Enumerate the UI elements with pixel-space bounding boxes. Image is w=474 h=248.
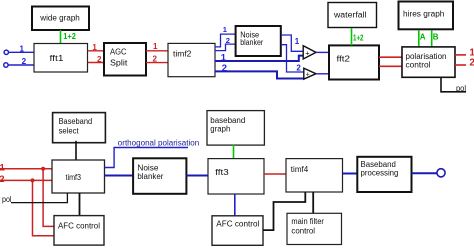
svg-text:A: A [420, 32, 426, 41]
svg-text:timf2: timf2 [173, 50, 192, 59]
svg-text:timf3: timf3 [66, 173, 82, 182]
wire red fft3 to timf4 [264, 173, 286, 175]
wire black timf4 to AFC control [263, 192, 305, 230]
node junction dot 2 [31, 178, 35, 182]
svg-text:AFC control: AFC control [216, 220, 259, 229]
svg-text:main filter: main filter [291, 217, 324, 226]
svg-text:1: 1 [0, 162, 6, 173]
wire green B polarisation to hires [432, 30, 439, 47]
svg-text:pol: pol [2, 195, 12, 204]
box wide graph [32, 7, 89, 31]
box fft3 [208, 159, 264, 194]
box main filter control [287, 213, 342, 244]
box baseband graph [207, 111, 264, 146]
wire input 1 to fft1 [9, 44, 34, 53]
wire black baseband select to timf3 [75, 141, 77, 160]
svg-text:select: select [59, 126, 80, 135]
box hires graph [399, 2, 454, 30]
svg-text:fft3: fft3 [215, 168, 229, 177]
wire red input 2 to timf3 [0, 174, 52, 185]
box noise blanker (top) [236, 26, 281, 56]
wire red input 1 to timf3 [0, 162, 52, 173]
wire green fft3 to baseband graph [233, 145, 235, 159]
wire black pol output right [441, 77, 466, 93]
svg-text:Baseband: Baseband [361, 160, 396, 169]
wire red polarisation out 1 [455, 48, 474, 59]
svg-text:orthogonal polarisation: orthogonal polarisation [118, 138, 199, 147]
svg-text:Baseband: Baseband [59, 117, 93, 126]
svg-text:1: 1 [153, 42, 158, 51]
wire red fft2 out 2 [379, 65, 402, 67]
svg-text:B: B [433, 32, 439, 41]
wire red fft1 out 2 [88, 55, 104, 64]
svg-text:Split: Split [110, 59, 128, 68]
svg-text:blanker: blanker [240, 38, 263, 47]
wire black timf4 to main filter control [312, 192, 314, 213]
wire timf2 ch2 to noise blanker [215, 36, 236, 51]
wire blue timf4 to baseband processing [343, 173, 358, 175]
svg-text:control: control [291, 227, 315, 236]
box AGC Split [104, 43, 146, 76]
svg-text:hires graph: hires graph [403, 9, 444, 18]
wire blue baseband processing output [412, 172, 437, 174]
wire blue noise blanker to fft3 [186, 175, 208, 177]
svg-text:2: 2 [469, 58, 474, 69]
svg-text:2: 2 [153, 54, 158, 63]
box timf2 [168, 43, 215, 76]
svg-text:AGC: AGC [110, 48, 127, 57]
svg-text:AFC control: AFC control [58, 222, 100, 231]
svg-text:2: 2 [226, 36, 230, 45]
wire adder 1 to fft2 [316, 51, 329, 53]
box fft2 [329, 45, 379, 79]
svg-text:+: + [305, 48, 310, 57]
svg-text:processing: processing [361, 169, 399, 178]
box polarisation control [402, 47, 455, 77]
box Baseband processing [357, 157, 411, 192]
node junction dot 1 [41, 167, 45, 171]
svg-text:wide graph: wide graph [39, 14, 80, 23]
wire black timf3 to AFC control [79, 193, 81, 216]
box timf4 [286, 159, 343, 192]
wire green A polarisation to hires [419, 30, 426, 47]
wire green fft2 to waterfall [352, 28, 364, 45]
svg-text:pol: pol [456, 84, 466, 93]
wire red branch 2 to AFC control [33, 180, 55, 235]
adder 2 [304, 68, 316, 79]
node input 1 [4, 50, 8, 54]
wire red polarisation out 2 [455, 58, 474, 69]
svg-text:1: 1 [295, 37, 300, 46]
svg-text:timf4: timf4 [291, 165, 309, 174]
svg-text:fft2: fft2 [337, 55, 351, 64]
wire blue timf3 to noise blanker [105, 175, 134, 177]
svg-text:+: + [306, 71, 310, 78]
node input 2 [4, 63, 8, 67]
node output terminal [437, 169, 445, 177]
svg-text:2: 2 [222, 63, 227, 74]
svg-text:1+2: 1+2 [63, 32, 76, 41]
wire red AGC out 2 [146, 54, 168, 63]
wire black pol input left [2, 193, 67, 204]
adder 1 [303, 46, 316, 59]
svg-text:1: 1 [92, 43, 97, 52]
wire timf2 ch1 to noise blanker [215, 25, 236, 47]
box timf3 [52, 160, 105, 193]
svg-text:2: 2 [97, 55, 102, 64]
wire green fft1 to wide graph [61, 30, 77, 44]
wire timf2 bypass 2 to adder 2 [215, 63, 306, 79]
wire red branch 1 to AFC control [43, 169, 54, 227]
wire blue orthogonal polarisation [105, 138, 200, 167]
svg-text:blanker: blanker [137, 172, 163, 181]
svg-text:polarisation: polarisation [406, 52, 447, 61]
wire red AGC out 1 [146, 42, 168, 51]
svg-text:1: 1 [221, 53, 227, 64]
box Baseband select [53, 113, 106, 143]
wire red fft2 out 1 [379, 56, 402, 58]
svg-text:2: 2 [22, 57, 27, 66]
wire noise blanker out 1 to adder 1 [281, 35, 303, 51]
box waterfall [328, 3, 377, 28]
box AFC control (left) [54, 216, 104, 246]
wire red fft1 out 1 [88, 43, 104, 52]
wire adder 2 to fft2 [316, 73, 329, 75]
wire blue fft3 to AFC control [234, 194, 236, 216]
wire noise blanker out 2 to adder 2 [281, 45, 305, 73]
svg-text:1: 1 [223, 25, 227, 34]
svg-text:2: 2 [296, 64, 301, 73]
svg-text:2: 2 [0, 174, 4, 185]
svg-text:control: control [406, 61, 431, 70]
svg-text:graph: graph [210, 125, 230, 134]
wire timf2 bypass 1 to adder 1 [215, 53, 304, 64]
svg-text:1: 1 [20, 44, 25, 53]
svg-text:1+2: 1+2 [353, 34, 364, 43]
box fft1 [34, 44, 88, 73]
wire input 2 to fft1 [8, 57, 34, 66]
svg-text:waterfall: waterfall [333, 11, 367, 20]
svg-text:fft1: fft1 [50, 54, 65, 63]
box AFC control (middle) [212, 216, 263, 246]
box noise blanker (bottom) [133, 158, 186, 194]
